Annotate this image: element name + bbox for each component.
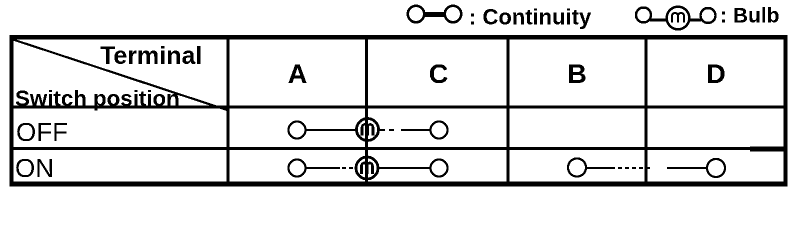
svg-text:C: C	[429, 59, 449, 89]
svg-text:OFF: OFF	[16, 117, 68, 147]
svg-text:Terminal: Terminal	[100, 42, 202, 70]
svg-text:Switch position: Switch position	[15, 86, 180, 111]
svg-text:B: B	[567, 59, 587, 89]
svg-text:: Bulb: : Bulb	[720, 5, 779, 28]
svg-text:: Continuity: : Continuity	[469, 5, 592, 30]
svg-text:ON: ON	[15, 153, 54, 183]
svg-text:D: D	[706, 59, 726, 89]
svg-text:A: A	[288, 59, 308, 89]
